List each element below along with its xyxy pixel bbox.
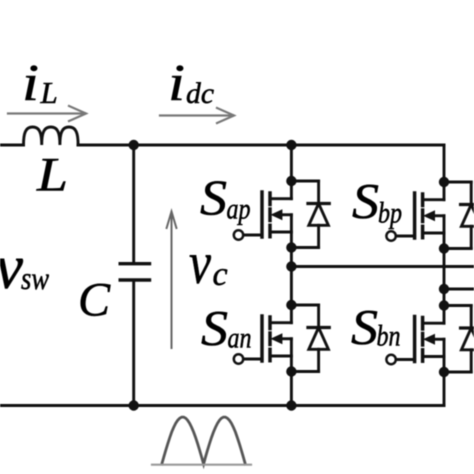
node bottom rail leg A junction: [286, 400, 296, 410]
transistor Sbn: [386, 306, 444, 373]
node output b junction: [439, 284, 449, 294]
capacitor branch bottom wire: [132, 282, 135, 406]
node Sap drain: [286, 176, 296, 186]
wire leg A lower: [290, 372, 293, 406]
voltage arrow vc: [167, 212, 177, 349]
current arrow idc: [160, 108, 234, 123]
inductor L: [24, 127, 79, 145]
transistor Sbp: [386, 182, 444, 249]
svg-text:dc: dc: [186, 77, 214, 110]
diode Sbp body diode: [444, 182, 474, 249]
node bottom rail capacitor junction: [129, 400, 139, 410]
svg-text:v: v: [0, 232, 23, 302]
svg-text:bp: bp: [378, 197, 402, 230]
wire leg A upper: [290, 145, 293, 181]
wire output b: [444, 288, 474, 291]
wire top rail right segment: [78, 144, 444, 147]
node output a junction: [286, 261, 296, 271]
diode Sap body diode: [291, 181, 329, 248]
svg-text:sw: sw: [21, 260, 50, 296]
svg-text:ap: ap: [227, 193, 251, 226]
svg-text:L: L: [40, 75, 58, 110]
wire leg B middle: [443, 249, 446, 306]
transistor Sap: [234, 181, 292, 248]
svg-text:S: S: [352, 173, 379, 229]
diode San body diode: [291, 305, 329, 372]
svg-text:S: S: [200, 169, 227, 225]
svg-text:v: v: [189, 230, 211, 296]
svg-text:i: i: [168, 55, 185, 112]
diode Sbn body diode: [444, 306, 474, 373]
node Sbn source: [439, 367, 449, 377]
svg-text:C: C: [78, 274, 111, 327]
node San drain: [286, 300, 296, 310]
svg-text:c: c: [213, 256, 228, 293]
wire top rail left segment: [0, 144, 24, 147]
wire leg B upper: [443, 145, 446, 182]
svg-text:L: L: [36, 149, 68, 202]
waveform baseline: [152, 464, 251, 466]
transistor San: [234, 305, 292, 372]
capacitor C bottom plate: [119, 278, 152, 281]
svg-text:i: i: [22, 55, 39, 112]
current arrow iL: [8, 106, 86, 121]
svg-text:an: an: [228, 322, 252, 355]
node top rail capacitor junction: [129, 140, 139, 150]
wire leg A middle: [290, 248, 293, 306]
node Sbn drain: [439, 300, 449, 310]
node Sbp drain: [439, 177, 449, 187]
node top rail leg A junction: [286, 140, 296, 150]
svg-text:bn: bn: [377, 320, 401, 353]
svg-text:S: S: [201, 300, 228, 356]
node Sap source: [286, 242, 296, 252]
svg-text:S: S: [351, 299, 378, 355]
capacitor branch top wire: [132, 145, 135, 262]
wire bottom rail: [0, 404, 444, 407]
capacitor C top plate: [119, 262, 152, 265]
wire leg B lower: [443, 372, 446, 406]
node Sbp source: [439, 243, 449, 253]
waveform rectified sine humps: [162, 417, 246, 464]
node San source: [286, 366, 296, 376]
wire output a: [291, 265, 474, 268]
